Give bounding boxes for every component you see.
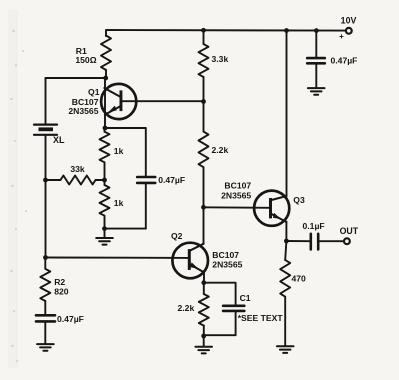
svg-text:2N3565: 2N3565 xyxy=(212,260,242,270)
svg-text:BC107: BC107 xyxy=(224,181,251,191)
svg-text:33k: 33k xyxy=(70,164,85,174)
svg-text:XL: XL xyxy=(53,135,65,145)
svg-text:2.2k: 2.2k xyxy=(178,303,195,313)
svg-text:0.47µF: 0.47µF xyxy=(57,314,84,324)
svg-text:Q1: Q1 xyxy=(88,87,100,97)
svg-text:Q3: Q3 xyxy=(293,195,305,205)
svg-text:0.47µF: 0.47µF xyxy=(331,56,358,66)
svg-text:+: + xyxy=(339,32,344,41)
svg-text:1k: 1k xyxy=(114,146,124,156)
svg-text:150Ω: 150Ω xyxy=(75,55,96,65)
svg-text:BC107: BC107 xyxy=(212,250,239,260)
svg-text:*SEE TEXT: *SEE TEXT xyxy=(238,313,284,323)
svg-text:2N3565: 2N3565 xyxy=(68,106,98,116)
svg-text:10V: 10V xyxy=(341,15,357,25)
svg-text:2.2k: 2.2k xyxy=(212,145,229,155)
svg-text:OUT: OUT xyxy=(340,226,359,236)
svg-text:820: 820 xyxy=(54,287,69,297)
svg-text:0.1µF: 0.1µF xyxy=(303,221,325,231)
svg-text:Q2: Q2 xyxy=(171,231,183,241)
svg-text:2N3565: 2N3565 xyxy=(221,190,251,200)
svg-text:3.3k: 3.3k xyxy=(212,54,229,64)
svg-text:1k: 1k xyxy=(114,198,124,208)
svg-text:C1: C1 xyxy=(240,293,251,303)
svg-text:0.47µF: 0.47µF xyxy=(158,175,185,185)
svg-text:470: 470 xyxy=(292,274,307,284)
